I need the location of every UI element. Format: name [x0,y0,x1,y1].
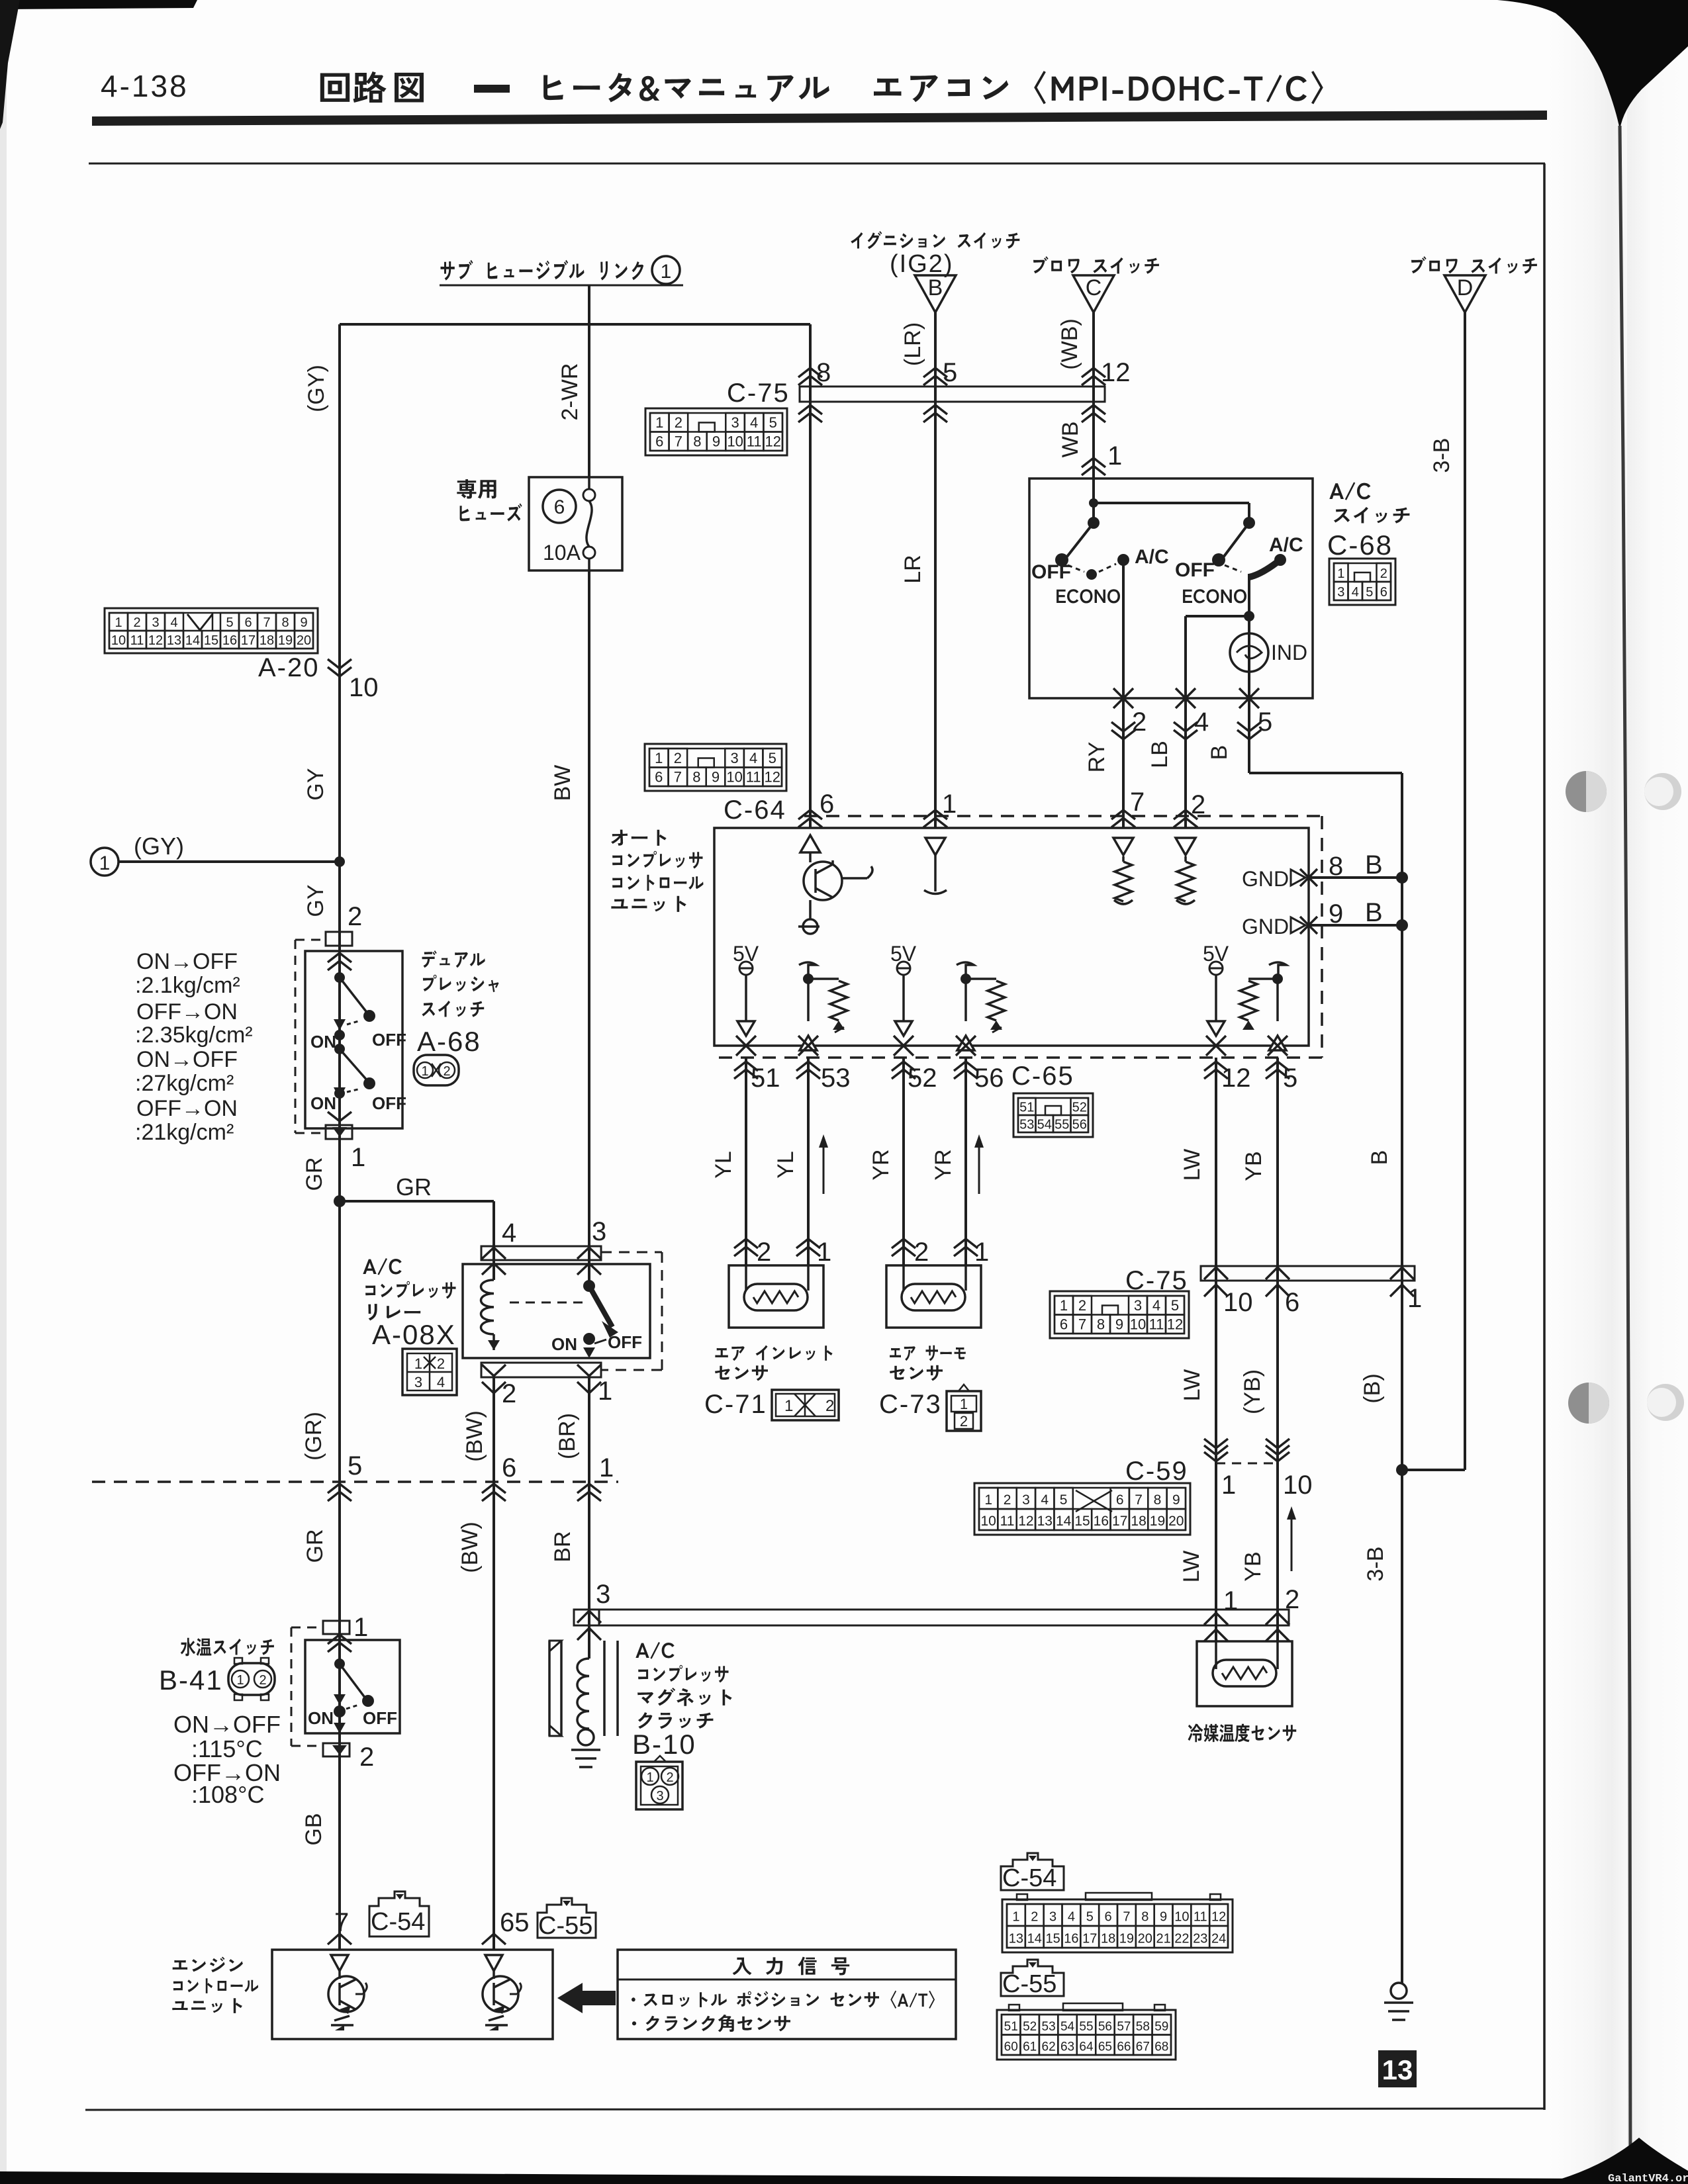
svg-text:OFF: OFF [1175,559,1215,581]
svg-text:7: 7 [674,769,682,786]
svg-text:57: 57 [1117,2020,1131,2034]
svg-text:11: 11 [747,433,762,450]
svg-text:3: 3 [1022,1492,1030,1508]
junction dot GY [334,856,345,867]
svg-text:3: 3 [656,1789,663,1803]
control unit dashed boundary C-64 [804,815,1322,817]
svg-text:YR: YR [868,1149,894,1180]
svg-text:3: 3 [414,1374,422,1390]
svg-text:6: 6 [554,496,565,518]
svg-text:4: 4 [1194,707,1209,737]
water temp switch labels [181,1638,274,1657]
svg-text:2: 2 [1004,1492,1011,1508]
svg-text:53: 53 [821,1064,851,1093]
connector C-55 small tab icon [538,1898,596,1938]
svg-text:61: 61 [1023,2040,1037,2054]
svg-text:5: 5 [348,1451,362,1480]
svg-text:ON: ON [551,1334,577,1354]
connector triangle B ignition switch IG2 [915,275,956,312]
svg-text:51: 51 [751,1064,780,1093]
svg-text:8: 8 [1329,852,1343,881]
svg-text:12: 12 [765,433,780,450]
svg-text:20: 20 [1138,1932,1152,1946]
svg-text:17: 17 [1082,1932,1097,1946]
svg-text:6: 6 [655,433,663,450]
svg-text:1: 1 [646,1770,653,1785]
svg-text:OFF: OFF [608,1332,642,1352]
svg-text:20: 20 [297,633,311,648]
svg-text:14: 14 [1056,1514,1072,1529]
bulkhead crossings pins 5 6 1 [328,1484,352,1493]
svg-text:7: 7 [263,615,270,630]
svg-text:7: 7 [1123,1910,1130,1925]
svg-text:56: 56 [1098,2020,1112,2034]
water temp switch contact [334,1694,346,1705]
wire BR relay pin1 down to compressor clutch [588,1377,590,1659]
pin 1 into A/C switch [1082,458,1105,467]
svg-text:(LR): (LR) [900,322,925,366]
right switch common down with IND lamp branch [1248,574,1250,698]
svg-text:B: B [1207,745,1232,760]
wire GR branch to relay pin 4 [340,1200,494,1203]
svg-text:8: 8 [693,433,701,450]
relay pin band bottom pins 2 1 [481,1363,601,1377]
svg-text:LR: LR [900,555,925,583]
svg-text:4: 4 [750,414,758,431]
svg-text:2: 2 [674,750,682,766]
title underline bar [92,111,1547,126]
svg-text:3: 3 [1134,1297,1142,1314]
svg-text:5: 5 [1366,585,1373,600]
compressor clutch coil and plates [548,1641,551,1736]
wire YR pin 56 to air thermo sensor [964,1058,967,1265]
svg-text:9: 9 [1160,1910,1167,1925]
svg-text:1: 1 [960,1396,968,1412]
svg-text:55: 55 [1055,1117,1069,1132]
svg-text:6: 6 [1105,1910,1112,1925]
svg-text:11: 11 [1000,1514,1015,1529]
svg-text:8: 8 [1141,1910,1149,1925]
C-75 lower crossings pins 10 6 1 [1204,1267,1228,1279]
svg-text:(BW): (BW) [457,1522,483,1572]
svg-text:68: 68 [1154,2040,1168,2054]
wire from A/C contact down to pin 2 [1122,560,1125,698]
svg-text:10: 10 [1223,1288,1253,1317]
wire GY left branch down [338,324,341,1950]
connector A-20 pin diagram 20-pin [105,608,318,653]
pin 1 entry [923,810,947,819]
svg-text:3: 3 [1049,1910,1056,1925]
svg-text:1: 1 [1107,441,1122,471]
connector C-55 label tab [1001,1960,1064,1996]
svg-text:52: 52 [908,1064,937,1093]
svg-text:6: 6 [502,1453,516,1482]
svg-text:2: 2 [757,1238,771,1267]
svg-text::2.1kg/cm²: :2.1kg/cm² [135,973,240,998]
svg-text:GalantVR4.org: GalantVR4.org [1608,2173,1688,2184]
svg-text:10: 10 [1130,1316,1146,1333]
svg-text:C-59: C-59 [1125,1457,1188,1486]
svg-text:10: 10 [1174,1910,1189,1925]
svg-text:10: 10 [727,433,743,450]
svg-text:2: 2 [914,1238,929,1267]
page title 回路図 ヒータ&マニュアル エアコン MPI-DOHC-T/C [320,73,350,102]
svg-text:3: 3 [592,1217,606,1246]
svg-text:YB: YB [1241,1551,1266,1581]
svg-text:51: 51 [1019,1100,1034,1115]
svg-text:C-65: C-65 [1011,1062,1074,1091]
svg-text:2: 2 [1078,1297,1086,1314]
connector C-75 pin diagram 12-pin lower [1050,1291,1189,1338]
svg-text:1: 1 [1221,1471,1236,1500]
svg-text:10: 10 [111,633,126,648]
svg-text:52: 52 [1023,2020,1037,2034]
relay pin band top pins 4 3 [481,1246,601,1260]
flow arrow up beside 56 [978,1142,980,1194]
connector B-10 diagram [636,1762,682,1809]
svg-text:2: 2 [259,1673,266,1688]
svg-text:62: 62 [1042,2040,1056,2054]
pin 7 entry [1111,810,1135,819]
svg-text:10: 10 [349,673,379,702]
svg-text:B-41: B-41 [159,1664,223,1696]
svg-text:1: 1 [421,1064,428,1079]
svg-text:64: 64 [1079,2040,1094,2054]
pin 2 entry [1174,810,1197,819]
svg-text:59: 59 [1154,2020,1168,2034]
svg-text:13: 13 [167,633,181,648]
svg-text:2: 2 [666,1770,673,1785]
svg-text:53: 53 [1019,1117,1034,1132]
svg-text:16: 16 [1064,1932,1078,1946]
svg-text:ON: ON [308,1708,334,1728]
wire YL pin 51 to air inlet sensor [745,1058,747,1265]
svg-text:12: 12 [1101,358,1131,387]
svg-text:2: 2 [1380,567,1387,581]
svg-text::2.35kg/cm²: :2.35kg/cm² [135,1023,253,1048]
svg-text:C-71: C-71 [704,1390,767,1419]
wire 3-B from D down right side [1464,312,1466,1470]
A/C switch internal wiring [1092,478,1095,523]
svg-text:6: 6 [820,790,834,819]
svg-text:12: 12 [1167,1316,1183,1333]
wire GY right branch down [809,324,812,828]
svg-text:8: 8 [1097,1316,1105,1333]
air inlet sensor label [715,1345,832,1361]
svg-text:9: 9 [1172,1492,1180,1508]
svg-text::21kg/cm²: :21kg/cm² [135,1120,234,1145]
svg-text:54: 54 [1060,2020,1075,2034]
svg-text:13: 13 [1037,1514,1053,1529]
svg-text:9: 9 [300,615,307,630]
svg-text:2: 2 [1031,1910,1038,1925]
diagram frame bottom rule [85,2109,1545,2110]
svg-text:IND: IND [1271,641,1307,664]
svg-text::115°C: :115°C [191,1735,263,1762]
right switch thick selected arm to A/C [1249,562,1278,577]
junction of B and 3-B wires [1402,1469,1465,1471]
svg-text:OFF: OFF [1031,561,1071,583]
svg-text:19: 19 [1119,1932,1134,1946]
svg-text:1: 1 [351,1143,365,1172]
svg-text:22: 22 [1174,1932,1189,1946]
svg-text:9: 9 [712,769,720,786]
svg-text:A-08X: A-08X [372,1319,456,1350]
svg-text:GR: GR [396,1173,432,1201]
connector triangle D blower switch [1444,275,1485,312]
wire B vertical to ground junction [1401,773,1403,1983]
svg-text:11: 11 [1149,1316,1164,1333]
svg-text:OFF→ON: OFF→ON [136,1096,238,1121]
internal pin 1 input symbol [925,838,945,855]
svg-text:9: 9 [1115,1316,1123,1333]
svg-text:1: 1 [655,750,663,766]
svg-text:(WB): (WB) [1057,318,1082,369]
pin 6 entry [798,810,822,819]
svg-text:13: 13 [1382,2054,1413,2085]
refrigerant temp sensor box [1197,1641,1292,1706]
svg-text:OFF: OFF [372,1030,406,1050]
svg-text:C-75: C-75 [727,379,790,408]
svg-text:ON: ON [310,1032,336,1052]
svg-text:C-54: C-54 [1002,1864,1056,1892]
svg-text:10: 10 [981,1514,996,1529]
ECU transistor 2 [492,1971,495,1979]
svg-text:7: 7 [1078,1316,1086,1333]
svg-text:18: 18 [1101,1932,1115,1946]
svg-text:B-10: B-10 [632,1729,696,1760]
svg-text:2: 2 [502,1379,516,1408]
svg-text:21: 21 [1156,1932,1170,1946]
svg-text:12: 12 [1211,1910,1226,1925]
svg-text:58: 58 [1136,2020,1150,2034]
svg-text:5: 5 [1258,707,1272,737]
svg-text:C-73: C-73 [879,1390,942,1419]
right switch arm [1221,523,1249,560]
connector triangle C blower switch [1073,275,1114,312]
dual pressure switch box A-68 [305,951,402,1128]
svg-text:53: 53 [1042,2020,1056,2034]
svg-text:5: 5 [1086,1910,1094,1925]
svg-text:15: 15 [1045,1932,1060,1946]
svg-text:ON→OFF: ON→OFF [173,1711,281,1738]
svg-text:2-WR: 2-WR [557,363,583,421]
svg-text:1: 1 [1060,1297,1068,1314]
ECU entry chevrons [328,1934,352,1944]
svg-text:1: 1 [784,1397,793,1415]
engine control unit label [173,1957,243,1973]
svg-text:5: 5 [226,615,233,630]
ground symbol for B wire [1391,1983,1407,1999]
svg-text:1: 1 [942,790,957,819]
wire YB pin 5 down to refrigerant sensor [1276,1058,1279,1641]
air thermo sensor label [890,1345,966,1361]
svg-text:18: 18 [1131,1514,1146,1529]
svg-text:52: 52 [1072,1100,1087,1115]
svg-text:B: B [1365,898,1383,927]
svg-text:(BW): (BW) [462,1410,487,1461]
svg-text:19: 19 [1150,1514,1165,1529]
svg-text:54: 54 [1037,1117,1052,1132]
svg-text:4-138: 4-138 [101,69,189,103]
wire BW fuse to relay [588,570,590,1286]
svg-text:11: 11 [130,633,144,648]
svg-text:11: 11 [1194,1910,1207,1925]
svg-text:18: 18 [259,633,274,648]
A/C compressor relay box A-08X [463,1264,650,1358]
connector A-08X diagram 2x2 [402,1349,457,1395]
svg-text:16: 16 [1094,1514,1109,1529]
svg-text:5: 5 [769,414,777,431]
svg-text::27kg/cm²: :27kg/cm² [135,1071,234,1096]
svg-text:7: 7 [675,433,682,450]
svg-text:8: 8 [1154,1492,1162,1508]
svg-text:OFF: OFF [363,1708,397,1728]
svg-text:10: 10 [1283,1471,1313,1500]
internal resistor branch pin 5 [1269,962,1286,979]
svg-text:1: 1 [1012,1910,1019,1925]
svg-text:56: 56 [974,1064,1004,1093]
svg-text:GND: GND [1242,867,1289,891]
svg-text:6: 6 [1060,1316,1068,1333]
svg-text:4: 4 [1152,1297,1160,1314]
internal resistor branch pin 56 [957,962,974,979]
water temp switch dashed boundary [291,1627,323,1629]
svg-text:C-64: C-64 [724,796,786,825]
svg-text:YR: YR [931,1149,956,1180]
page number 13 black box [1378,2050,1417,2087]
svg-text:6: 6 [1116,1492,1124,1508]
relay dashed boundary [601,1251,662,1253]
connector band from compressor clutch to sensor [574,1610,1289,1625]
svg-text:3: 3 [730,750,738,766]
svg-text:65: 65 [1098,2040,1112,2054]
svg-text:5: 5 [1171,1297,1179,1314]
air inlet sensor box [729,1265,823,1328]
svg-text:23: 23 [1193,1932,1207,1946]
internal transistor circuit at pin 6 [800,835,820,852]
svg-text:B: B [1365,850,1383,880]
refrigerant temp sensor label [1188,1724,1297,1743]
svg-text:2: 2 [960,1413,968,1430]
svg-text:11: 11 [746,769,761,786]
diagram frame top rule [89,163,1545,165]
svg-text:51: 51 [1004,2020,1018,2034]
svg-text:5: 5 [943,358,957,387]
svg-text:2: 2 [437,1355,445,1372]
dedicated fuse 6 10A [457,479,496,498]
svg-text:1: 1 [1223,1586,1238,1615]
svg-text:ON→OFF: ON→OFF [136,1047,238,1072]
svg-text:7: 7 [1130,788,1145,817]
svg-text:2: 2 [443,1064,450,1079]
wire BW relay pin2 down to ECU [492,1377,495,1950]
connector C-64 pin diagram 12-pin [645,744,786,791]
wire B pin5 right then down [1248,698,1250,773]
svg-text:2: 2 [359,1743,374,1772]
svg-text:8: 8 [281,615,289,630]
A/C switch box C-68 [1029,478,1313,698]
svg-text:1: 1 [1407,1284,1422,1313]
pin 8 chevrons on GY at C-75 [798,368,822,377]
svg-text:D: D [1457,275,1474,300]
svg-text:1: 1 [817,1238,831,1267]
air thermo sensor entry pins 2 1 [892,1239,915,1248]
wire YL pin 53 to air inlet sensor [807,1058,810,1265]
svg-text:GY: GY [303,884,328,917]
svg-text:(GR): (GR) [301,1412,326,1461]
pin 5 chevrons on LR at C-75 [923,368,947,377]
dual pressure switch dashed boundary [295,939,326,941]
svg-text:A/C: A/C [1135,546,1169,568]
dual pressure switch labels [422,950,485,968]
svg-text:LW: LW [1180,1369,1205,1401]
svg-text:(GY): (GY) [134,833,184,860]
svg-text::108°C: :108°C [191,1781,264,1808]
svg-text:4: 4 [170,615,177,630]
svg-text:C-68: C-68 [1327,529,1393,561]
svg-text:A-68: A-68 [417,1026,481,1057]
svg-text:13: 13 [1009,1932,1023,1946]
left switch arm to OFF [1064,523,1094,560]
svg-text:A/C: A/C [1269,534,1303,556]
svg-text:5: 5 [769,750,776,766]
svg-text:3: 3 [596,1580,610,1609]
wire LW pin 12 down to refrigerant sensor [1215,1058,1217,1641]
svg-text:1: 1 [984,1492,992,1508]
flow arrow up beside 53 [823,1142,825,1194]
svg-text:LW: LW [1179,1551,1204,1582]
clutch ground symbol [571,1749,600,1751]
flow arrow up beside YB [1291,1514,1293,1571]
svg-text:GB: GB [301,1813,326,1845]
svg-text:B: B [928,275,943,300]
IND indicator lamp [1230,633,1268,672]
svg-text:YL: YL [711,1151,736,1179]
svg-text:1: 1 [661,261,672,283]
compressor clutch labels [635,1642,674,1659]
svg-text:1: 1 [99,852,111,874]
wire YR pin 52 to air thermo sensor [902,1058,905,1265]
junction dot GR branch [334,1195,346,1207]
svg-text:9: 9 [1329,899,1343,929]
svg-text:19: 19 [278,633,293,648]
svg-text:6: 6 [655,769,663,786]
wire fusible link down [588,285,590,477]
svg-text:10A: 10A [543,541,581,565]
svg-text:3: 3 [731,414,739,431]
svg-text:2: 2 [1132,707,1147,737]
relay labels [363,1258,401,1275]
wire WB from C [1092,312,1095,478]
svg-text:GND: GND [1242,915,1289,938]
svg-text:12: 12 [764,769,780,786]
pin 2 exit water temp switch [334,1723,346,1733]
connector A-68 diagram oval 1 2 [414,1055,459,1085]
wire LR from B [934,312,937,828]
pin 1 entry water temp switch [323,1621,350,1634]
svg-text:12: 12 [1018,1514,1033,1529]
control unit bottom pin crossings 51 53 52 56 12 5 [736,1036,756,1056]
svg-text:GY: GY [303,768,328,800]
wire RY pin2 to control unit pin 7 [1122,698,1125,828]
connector B-41 diagram oval [228,1663,275,1695]
exit crossings pins 2 4 5 [1113,688,1133,708]
svg-text:3: 3 [1337,585,1344,600]
svg-text:OFF→ON: OFF→ON [136,999,238,1024]
svg-text:RY: RY [1084,742,1109,773]
connector C-54 pin diagram 24-pin [1002,1899,1233,1952]
